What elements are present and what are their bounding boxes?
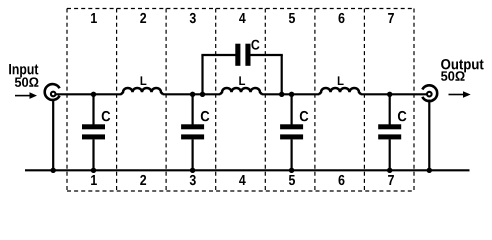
inductor L3 — [319, 88, 361, 94]
section number bottom 4 — [239, 175, 246, 185]
dashed section divider 6 — [363, 9, 365, 192]
label C of C4 — [398, 111, 407, 121]
label Input — [9, 64, 38, 77]
label L of L3 — [338, 76, 344, 85]
junction node C2 ground — [190, 168, 195, 173]
junction node C3 top — [289, 92, 294, 97]
dashed section frame bottom edge — [67, 190, 414, 192]
section number top 6 — [339, 13, 345, 23]
output connector J2 outer shell — [422, 85, 437, 101]
section number bottom 2 — [140, 175, 146, 185]
dashed section divider 2 — [165, 9, 167, 192]
junction node C1 ground — [91, 168, 96, 173]
wire node 4 segment to output pin — [361, 93, 427, 95]
junction node bridge right — [279, 92, 284, 97]
section number bottom 3 — [190, 175, 196, 185]
inductor L1 — [121, 88, 163, 94]
label Output 50 ohm — [441, 71, 465, 81]
input connector J1 center pin — [51, 92, 56, 97]
output connector J2 center pin — [427, 92, 432, 97]
section number bottom 7 — [388, 175, 394, 185]
dashed section frame top edge — [67, 8, 414, 10]
dashed section divider 7 — [413, 9, 415, 192]
dashed section divider 0 — [66, 9, 68, 192]
junction node input ground — [51, 168, 56, 173]
section number top 3 — [190, 13, 196, 23]
section number top 2 — [140, 13, 146, 23]
label L of L2 — [239, 76, 245, 85]
wire output connector shell to ground rail — [428, 100, 430, 171]
section number top 4 — [239, 13, 246, 23]
section number bottom 5 — [289, 175, 295, 185]
section number top 1 — [91, 13, 97, 23]
label C of C2 — [201, 111, 210, 121]
junction node C2 top — [190, 92, 195, 97]
dashed section divider 3 — [215, 9, 217, 192]
output signal arrow — [449, 91, 471, 98]
junction node bridge left — [200, 92, 205, 97]
shunt capacitor C3 — [280, 94, 303, 170]
section number bottom 6 — [339, 175, 345, 185]
wire node 2 segment — [163, 93, 221, 95]
label C of C3 — [300, 111, 309, 121]
junction node C4 top — [387, 92, 392, 97]
label C of C5 — [251, 40, 259, 50]
label L of L1 — [141, 76, 147, 85]
section number bottom 1 — [91, 175, 97, 185]
dashed section divider 1 — [116, 9, 118, 192]
shunt capacitor C4 — [378, 94, 401, 170]
wire input connector shell to ground rail — [52, 100, 54, 171]
inductor L2 — [220, 88, 262, 94]
junction node output ground — [427, 168, 432, 173]
input signal arrow — [15, 92, 37, 99]
dashed section divider 5 — [314, 9, 316, 192]
dashed section divider 4 — [264, 9, 266, 192]
junction node C1 top — [91, 92, 96, 97]
label Output — [441, 59, 484, 72]
wire node 3 segment — [262, 93, 320, 95]
bridge capacitor C5 across L2 — [201, 44, 282, 95]
wire input pin to node 1 — [56, 93, 122, 95]
label C of C1 — [102, 111, 111, 121]
section number top 7 — [388, 13, 394, 23]
junction node C3 ground — [289, 168, 294, 173]
shunt capacitor C2 — [181, 94, 204, 170]
input connector J1 outer shell — [45, 84, 60, 100]
ground rail — [25, 169, 470, 171]
junction node C4 ground — [387, 168, 392, 173]
section number top 5 — [289, 13, 295, 23]
shunt capacitor C1 — [82, 94, 105, 170]
label Input 50 ohm — [15, 77, 39, 87]
